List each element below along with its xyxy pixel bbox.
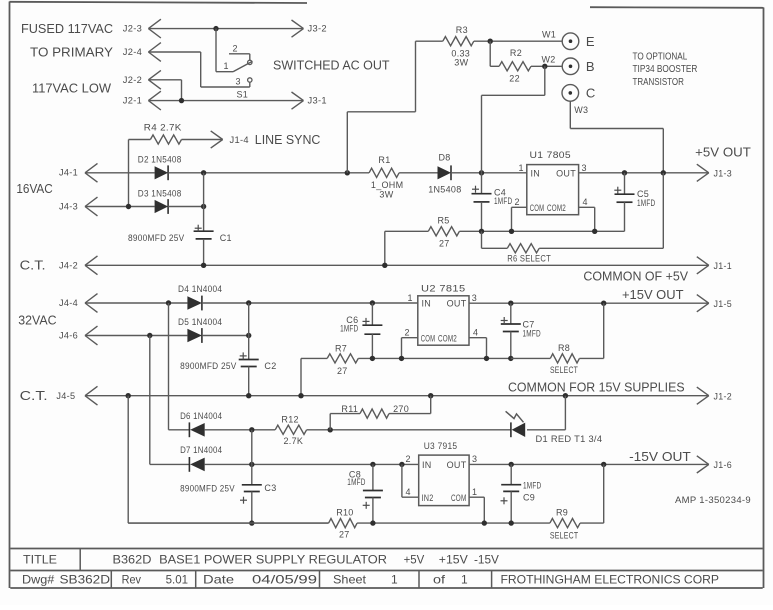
svg-text:R1: R1: [378, 155, 390, 165]
connector arrow J2-4: [148, 43, 161, 62]
junction C1 node: [201, 204, 206, 209]
label W1: [542, 30, 556, 40]
label 117VAC LOW: [32, 81, 112, 96]
wire D1 to common: [527, 396, 565, 430]
wire J2-1 to J3-1: [148, 100, 303, 102]
junction R9 top: [601, 462, 606, 467]
junction C6 top: [370, 300, 375, 305]
LED D1 arrow: [506, 411, 524, 422]
resistor R12 label: [281, 414, 298, 424]
svg-text:-15V OUT: -15V OUT: [629, 449, 691, 464]
label C.T. second: [20, 388, 48, 403]
capacitor C2: [239, 303, 259, 396]
border frame top-right segment: [590, 6, 764, 9]
wire J2-4 to switch terminal 3: [148, 52, 249, 87]
resistor R5 value: [439, 239, 450, 249]
pin 1 label U1: [519, 163, 524, 173]
junction C9 top: [509, 462, 514, 467]
svg-text:TITLE: TITLE: [23, 552, 57, 566]
junction D8/W2 node: [479, 170, 484, 175]
svg-text:Dwg#: Dwg#: [22, 572, 55, 586]
connector arrow J1-6: [697, 456, 732, 473]
label 16VAC: [16, 181, 52, 196]
node J2-3 label: [21, 21, 142, 36]
connector arrow J4-6: [85, 326, 98, 345]
wire U3 pin3 out: [469, 463, 709, 465]
wire rail to R3: [347, 41, 443, 173]
junction C4 bottom: [479, 229, 484, 234]
pin 4 label U1: [583, 197, 588, 207]
junction C9 bottom: [509, 520, 514, 525]
label 32VAC: [18, 313, 56, 328]
svg-text:D4 1N4004: D4 1N4004: [178, 284, 222, 294]
resistor R2 label: [510, 48, 522, 58]
junction C6 bottom: [370, 356, 375, 361]
wire D6 anode: [169, 429, 191, 431]
pin 2 label U2: [405, 328, 410, 338]
node J2-1 label: [123, 96, 142, 106]
svg-text:C3: C3: [264, 483, 276, 493]
svg-text:Date: Date: [203, 572, 234, 586]
capacitor C2 label: [264, 361, 276, 371]
connector arrow J3-2: [292, 20, 327, 37]
junction C1 top: [201, 170, 206, 175]
svg-text:D1 RED T1 3/4: D1 RED T1 3/4: [536, 434, 603, 444]
resistor R12: [275, 425, 306, 434]
node J4-1 label: [59, 168, 78, 178]
wire D7 to U3: [205, 463, 419, 465]
svg-text:8900MFD 25V: 8900MFD 25V: [180, 484, 235, 494]
svg-text:1: 1: [519, 163, 524, 173]
svg-text:J4-3: J4-3: [59, 201, 78, 211]
resistor R8 label: [558, 343, 570, 353]
svg-text:1: 1: [408, 293, 413, 303]
svg-text:1MFD: 1MFD: [347, 477, 365, 487]
resistor R7 label: [335, 344, 347, 354]
wire R12 to D1: [307, 429, 512, 431]
switch S1 contact 2 circle: [248, 60, 252, 64]
svg-text:32VAC: 32VAC: [18, 313, 56, 328]
svg-text:COM: COM: [530, 203, 545, 213]
connector arrow J4-3: [85, 197, 98, 216]
node J4-3 label: [59, 201, 78, 211]
svg-text:BASE1 POWER SUPPLY REGULATOR: BASE1 POWER SUPPLY REGULATOR: [159, 552, 387, 566]
wire R3 to E terminal: [474, 40, 562, 42]
capacitor C8 label: [347, 469, 365, 487]
pin 3 label U2: [472, 293, 477, 303]
svg-text:R3: R3: [456, 25, 468, 35]
connector arrow J2-1: [148, 91, 161, 110]
node J4-6 label: [59, 331, 78, 341]
pin 2 label U1: [515, 197, 520, 207]
diode D4 1N4004: [187, 296, 202, 311]
diode D5 label: [178, 317, 222, 327]
junction U2 pin2 bottom: [399, 356, 404, 361]
svg-text:1MFD: 1MFD: [637, 198, 655, 208]
svg-text:W2: W2: [542, 55, 556, 65]
capacitor C5: [614, 173, 634, 232]
svg-text:E: E: [586, 34, 596, 49]
junction D7 feed: [147, 333, 152, 338]
label C.T. first: [20, 258, 46, 273]
svg-text:4: 4: [473, 328, 478, 338]
resistor R1: [369, 168, 399, 177]
LED D1 RED: [511, 422, 525, 437]
svg-text:5.01: 5.01: [166, 572, 189, 586]
resistor R4: [150, 135, 181, 144]
wire D6/D7 tie: [251, 430, 253, 465]
junction D1 top: [563, 393, 568, 398]
svg-text:D5 1N4004: D5 1N4004: [178, 317, 222, 327]
resistor R10: [329, 519, 358, 528]
wire J4-6 to D7: [149, 336, 151, 465]
svg-text:J4-6: J4-6: [59, 331, 78, 341]
svg-text:27: 27: [337, 366, 348, 376]
resistor R2 value: [509, 74, 520, 84]
svg-text:SELECT: SELECT: [550, 365, 578, 375]
label +5V OUT: [695, 145, 751, 160]
resistor R11: [360, 409, 389, 418]
wire R1 to D8: [399, 172, 437, 174]
wire D4 to U2: [202, 302, 418, 304]
wire D8 to U1 pin1: [451, 172, 527, 174]
node J2-2 label: [123, 75, 142, 85]
junction R11 top: [428, 393, 433, 398]
svg-text:27: 27: [339, 529, 350, 539]
svg-text:J2-4: J2-4: [123, 47, 142, 57]
resistor R2: [499, 62, 531, 71]
junction C8 top: [370, 462, 375, 467]
svg-text:FROTHINGHAM ELECTRONICS CORP: FROTHINGHAM ELECTRONICS CORP: [501, 572, 720, 586]
diode D6 1N4004: [189, 422, 204, 437]
svg-text:2: 2: [406, 454, 411, 464]
wire R8 to +15V out: [579, 303, 603, 358]
diode D8 value: [428, 185, 461, 195]
resistor R4 label: [144, 123, 182, 133]
junction R11 bottom: [328, 427, 333, 432]
svg-text:J1-2: J1-2: [714, 391, 733, 401]
op-amp U2 label: [421, 284, 466, 294]
svg-text:1MFD: 1MFD: [523, 328, 541, 338]
svg-text:04/05/99: 04/05/99: [252, 572, 317, 586]
switch S1 arm: [233, 61, 253, 71]
svg-text:IN: IN: [422, 460, 432, 470]
switch S1 terminal 3 stub: [249, 82, 251, 87]
wire D5 to C2: [202, 335, 249, 337]
wire bottom rail mid: [357, 522, 550, 524]
svg-text:C9: C9: [523, 493, 535, 503]
svg-text:R5: R5: [438, 215, 450, 225]
svg-text:1: 1: [224, 61, 229, 71]
wire R6 to +5V out: [539, 173, 663, 249]
diode D3 1N5408: [155, 199, 169, 214]
svg-text:2: 2: [233, 44, 238, 54]
resistor R11 label: [341, 404, 358, 414]
wire D6 to R12: [205, 429, 276, 431]
label W3: [574, 105, 588, 115]
wire U2 pin3 out: [469, 302, 709, 304]
wire R4 to J1-4: [182, 139, 223, 141]
wire D3 to C1: [168, 206, 204, 208]
svg-text:C: C: [586, 86, 596, 101]
capacitor C6: [362, 303, 382, 358]
junction R8 top: [601, 301, 606, 306]
wire common of +5V: [85, 264, 709, 266]
svg-text:OUT: OUT: [556, 168, 576, 178]
U2 pin names: [421, 299, 467, 344]
svg-text:C2: C2: [264, 361, 276, 371]
junction U3 COM bottom: [482, 520, 487, 525]
diode D4 label: [178, 284, 222, 294]
pin 4 label U3: [406, 487, 411, 497]
resistor R6 label: [507, 254, 551, 264]
label SWITCHED AC OUT: [273, 58, 390, 73]
svg-text:R11: R11: [341, 404, 358, 414]
wire U1 common rail: [459, 230, 624, 232]
svg-text:OUT: OUT: [447, 460, 467, 470]
wire U2 pin2: [402, 338, 418, 359]
svg-text:117VAC LOW: 117VAC LOW: [32, 81, 112, 96]
wire U2 pin4: [469, 338, 487, 359]
title block grid: [10, 549, 762, 589]
wire R2 to B terminal: [531, 65, 562, 67]
regulator U3 7915 box: [419, 455, 469, 506]
diode D2 1N5408: [155, 165, 169, 180]
regulator U1 7805 box: [527, 165, 579, 215]
junction C5 top: [622, 170, 627, 175]
label -15V OUT: [629, 449, 691, 464]
svg-text:16VAC: 16VAC: [16, 181, 52, 196]
svg-text:D3 1N5408: D3 1N5408: [138, 188, 182, 198]
svg-text:J4-5: J4-5: [56, 391, 75, 401]
svg-text:IN2: IN2: [422, 493, 434, 503]
wire D2/D3 tie: [203, 173, 205, 207]
diode D3 label: [138, 188, 182, 198]
label W2: [542, 55, 556, 65]
diode D6 label: [180, 411, 222, 421]
title block row2 text: [22, 572, 719, 586]
resistor R9 label: [556, 508, 568, 518]
junction C2 top: [246, 300, 251, 305]
svg-text:J1-5: J1-5: [714, 299, 733, 309]
svg-text:U1 7805: U1 7805: [530, 150, 572, 160]
svg-text:COMMON FOR 15V SUPPLIES: COMMON FOR 15V SUPPLIES: [508, 380, 685, 395]
junction C1 bottom: [201, 263, 206, 268]
svg-text:IN: IN: [422, 299, 432, 309]
wire J4-6 to D5: [85, 335, 187, 337]
junction W2: [542, 64, 547, 69]
resistor R8 value: [550, 365, 578, 375]
junction C8 bottom: [370, 520, 375, 525]
diode D7 label: [180, 445, 222, 455]
svg-text:J1-1: J1-1: [714, 261, 733, 271]
wire U3 pin1 COM: [469, 497, 484, 523]
svg-text:D2 1N5408: D2 1N5408: [138, 154, 182, 164]
border frame top-left segment: [10, 2, 308, 3]
connector arrow J1-2: [697, 387, 732, 404]
svg-text:1: 1: [472, 487, 477, 497]
wire bottom rail left: [128, 522, 328, 524]
resistor R5 label: [438, 215, 450, 225]
svg-text:4: 4: [583, 197, 588, 207]
terminal W2 B circle: [562, 58, 579, 75]
svg-text:FUSED 117VAC: FUSED 117VAC: [21, 21, 113, 36]
wire R4 left lead: [129, 140, 151, 207]
svg-text:R6 SELECT: R6 SELECT: [507, 254, 551, 264]
wire R9 to -15V out: [580, 464, 604, 523]
svg-text:LINE SYNC: LINE SYNC: [255, 132, 321, 147]
wire U1 pin2: [512, 207, 527, 231]
resistor R10 value: [339, 529, 350, 539]
svg-text:R2: R2: [510, 48, 522, 58]
resistor R10 label: [336, 508, 353, 518]
junction bottom-rail feed: [126, 393, 131, 398]
label TO OPTIONAL TIP34 BOOSTER TRANSISTOR: [633, 51, 698, 88]
junction U1 pin4 bottom: [592, 229, 597, 234]
svg-text:R10: R10: [336, 508, 353, 518]
label C: [586, 86, 596, 101]
resistor R3 value: [451, 48, 470, 67]
svg-text:3W: 3W: [454, 58, 468, 68]
capacitor C7: [501, 303, 521, 358]
junction C2 bottom: [246, 393, 251, 398]
svg-text:2: 2: [405, 328, 410, 338]
op-amp U1 label: [530, 150, 572, 160]
capacitor C4: [472, 173, 492, 232]
svg-text:TIP34 BOOSTER: TIP34 BOOSTER: [633, 63, 698, 75]
wire D7 anode: [150, 463, 190, 465]
node J4-2 label: [59, 260, 78, 270]
capacitor C3 label: [264, 483, 276, 493]
node J4-4 label: [59, 298, 78, 308]
svg-text:J3-1: J3-1: [308, 96, 327, 106]
svg-text:TO OPTIONAL: TO OPTIONAL: [633, 51, 688, 63]
connector arrow J1-3: [697, 164, 732, 181]
svg-text:J1-4: J1-4: [230, 135, 249, 145]
svg-text:Sheet: Sheet: [333, 572, 367, 586]
junction U2 pin4 bottom: [484, 356, 489, 361]
svg-text:1MFD: 1MFD: [340, 323, 358, 333]
svg-text:R9: R9: [556, 508, 568, 518]
resistor R9 value: [550, 531, 579, 541]
capacitor C9 label: [523, 480, 541, 502]
resistor R12 value: [284, 436, 304, 446]
junction R7 bottom: [298, 393, 303, 398]
diode D2 label: [138, 154, 182, 164]
capacitor C6 label: [340, 315, 358, 334]
svg-text:J2-1: J2-1: [123, 96, 142, 106]
svg-text:3W: 3W: [379, 189, 393, 199]
capacitor C1 label: [220, 233, 232, 243]
label COMMON OF +5V: [583, 269, 688, 284]
svg-text:TRANSISTOR: TRANSISTOR: [633, 76, 685, 88]
diode D8 label: [439, 153, 451, 163]
resistor R1 label: [378, 155, 390, 165]
wire W2 to +5V input node: [482, 66, 545, 173]
svg-text:27: 27: [439, 239, 450, 249]
pin 3 label U3: [472, 454, 477, 464]
svg-text:B: B: [586, 59, 596, 74]
connector arrow J4-4: [85, 294, 98, 313]
svg-text:3: 3: [472, 454, 477, 464]
U3 pin names: [422, 460, 467, 503]
diode D5 1N4004: [187, 328, 202, 343]
svg-text:R7: R7: [335, 344, 347, 354]
resistor R11 value: [393, 404, 409, 414]
svg-text:D8: D8: [439, 153, 451, 163]
resistor R5: [428, 227, 459, 236]
svg-text:+15V: +15V: [439, 552, 468, 566]
resistor R7 value: [337, 366, 348, 376]
wire J2-2 to J2-1: [148, 80, 181, 101]
junction C7 top: [508, 301, 513, 306]
svg-text:B362D: B362D: [113, 552, 152, 566]
capacitor C1 value: [128, 233, 185, 243]
junction R3/R2: [488, 39, 493, 44]
node J2-4 label: [30, 45, 142, 60]
svg-text:SB362D: SB362D: [60, 572, 111, 586]
svg-text:C.T.: C.T.: [20, 388, 48, 403]
svg-text:S1: S1: [237, 90, 249, 100]
junction C3 top: [249, 427, 254, 432]
connector arrow J4-2: [85, 256, 98, 275]
svg-text:U2 7815: U2 7815: [421, 284, 466, 294]
label E: [586, 34, 596, 49]
switch pin label 1: [224, 61, 229, 71]
capacitor C8: [363, 464, 383, 523]
switch pin label 3: [236, 77, 241, 87]
svg-text:R12: R12: [281, 414, 298, 424]
wire J2-3 to J3-2: [148, 28, 303, 30]
label AMP 1-350234-9: [675, 495, 751, 505]
svg-text:8900MFD 25V: 8900MFD 25V: [180, 361, 237, 371]
junction R5 bottom: [382, 263, 387, 268]
wire U2 common rail: [358, 357, 511, 359]
capacitor C3: [240, 464, 262, 523]
wire C.T. to bottom rail: [128, 396, 328, 523]
svg-text:+5V: +5V: [404, 552, 425, 566]
svg-text:J3-2: J3-2: [308, 24, 327, 34]
wire R5 left lead: [385, 231, 429, 265]
svg-text:of: of: [433, 572, 446, 586]
svg-text:W1: W1: [542, 30, 556, 40]
svg-text:COMMON OF +5V: COMMON OF +5V: [583, 269, 688, 284]
resistor R7: [327, 354, 358, 363]
svg-text:D6 1N4004: D6 1N4004: [180, 411, 222, 421]
border frame left: [9, 2, 11, 589]
capacitor C1: [194, 207, 214, 266]
svg-text:COM: COM: [421, 333, 436, 343]
resistor R6 feed: [482, 231, 508, 248]
diode D8 1N5408: [438, 165, 452, 180]
label +15V OUT: [622, 287, 684, 302]
connector arrow J4-1: [85, 163, 98, 182]
label B: [586, 59, 596, 74]
resistor R11 lead right: [389, 396, 431, 414]
wire C terminal to +5V out node: [570, 101, 663, 173]
label COMMON FOR 15V SUPPLIES: [508, 380, 685, 395]
junction U1 pin2 bottom: [509, 229, 514, 234]
switch S1 contact 3 circle: [248, 78, 252, 82]
svg-text:2.7K: 2.7K: [284, 436, 304, 446]
wire R2 feed: [490, 41, 499, 66]
junction D6 feed: [166, 300, 171, 305]
svg-text:COM2: COM2: [547, 203, 566, 213]
resistor R3: [443, 37, 474, 46]
svg-text:+15V OUT: +15V OUT: [622, 287, 684, 302]
svg-text:J4-1: J4-1: [59, 168, 78, 178]
svg-text:22: 22: [509, 74, 520, 84]
